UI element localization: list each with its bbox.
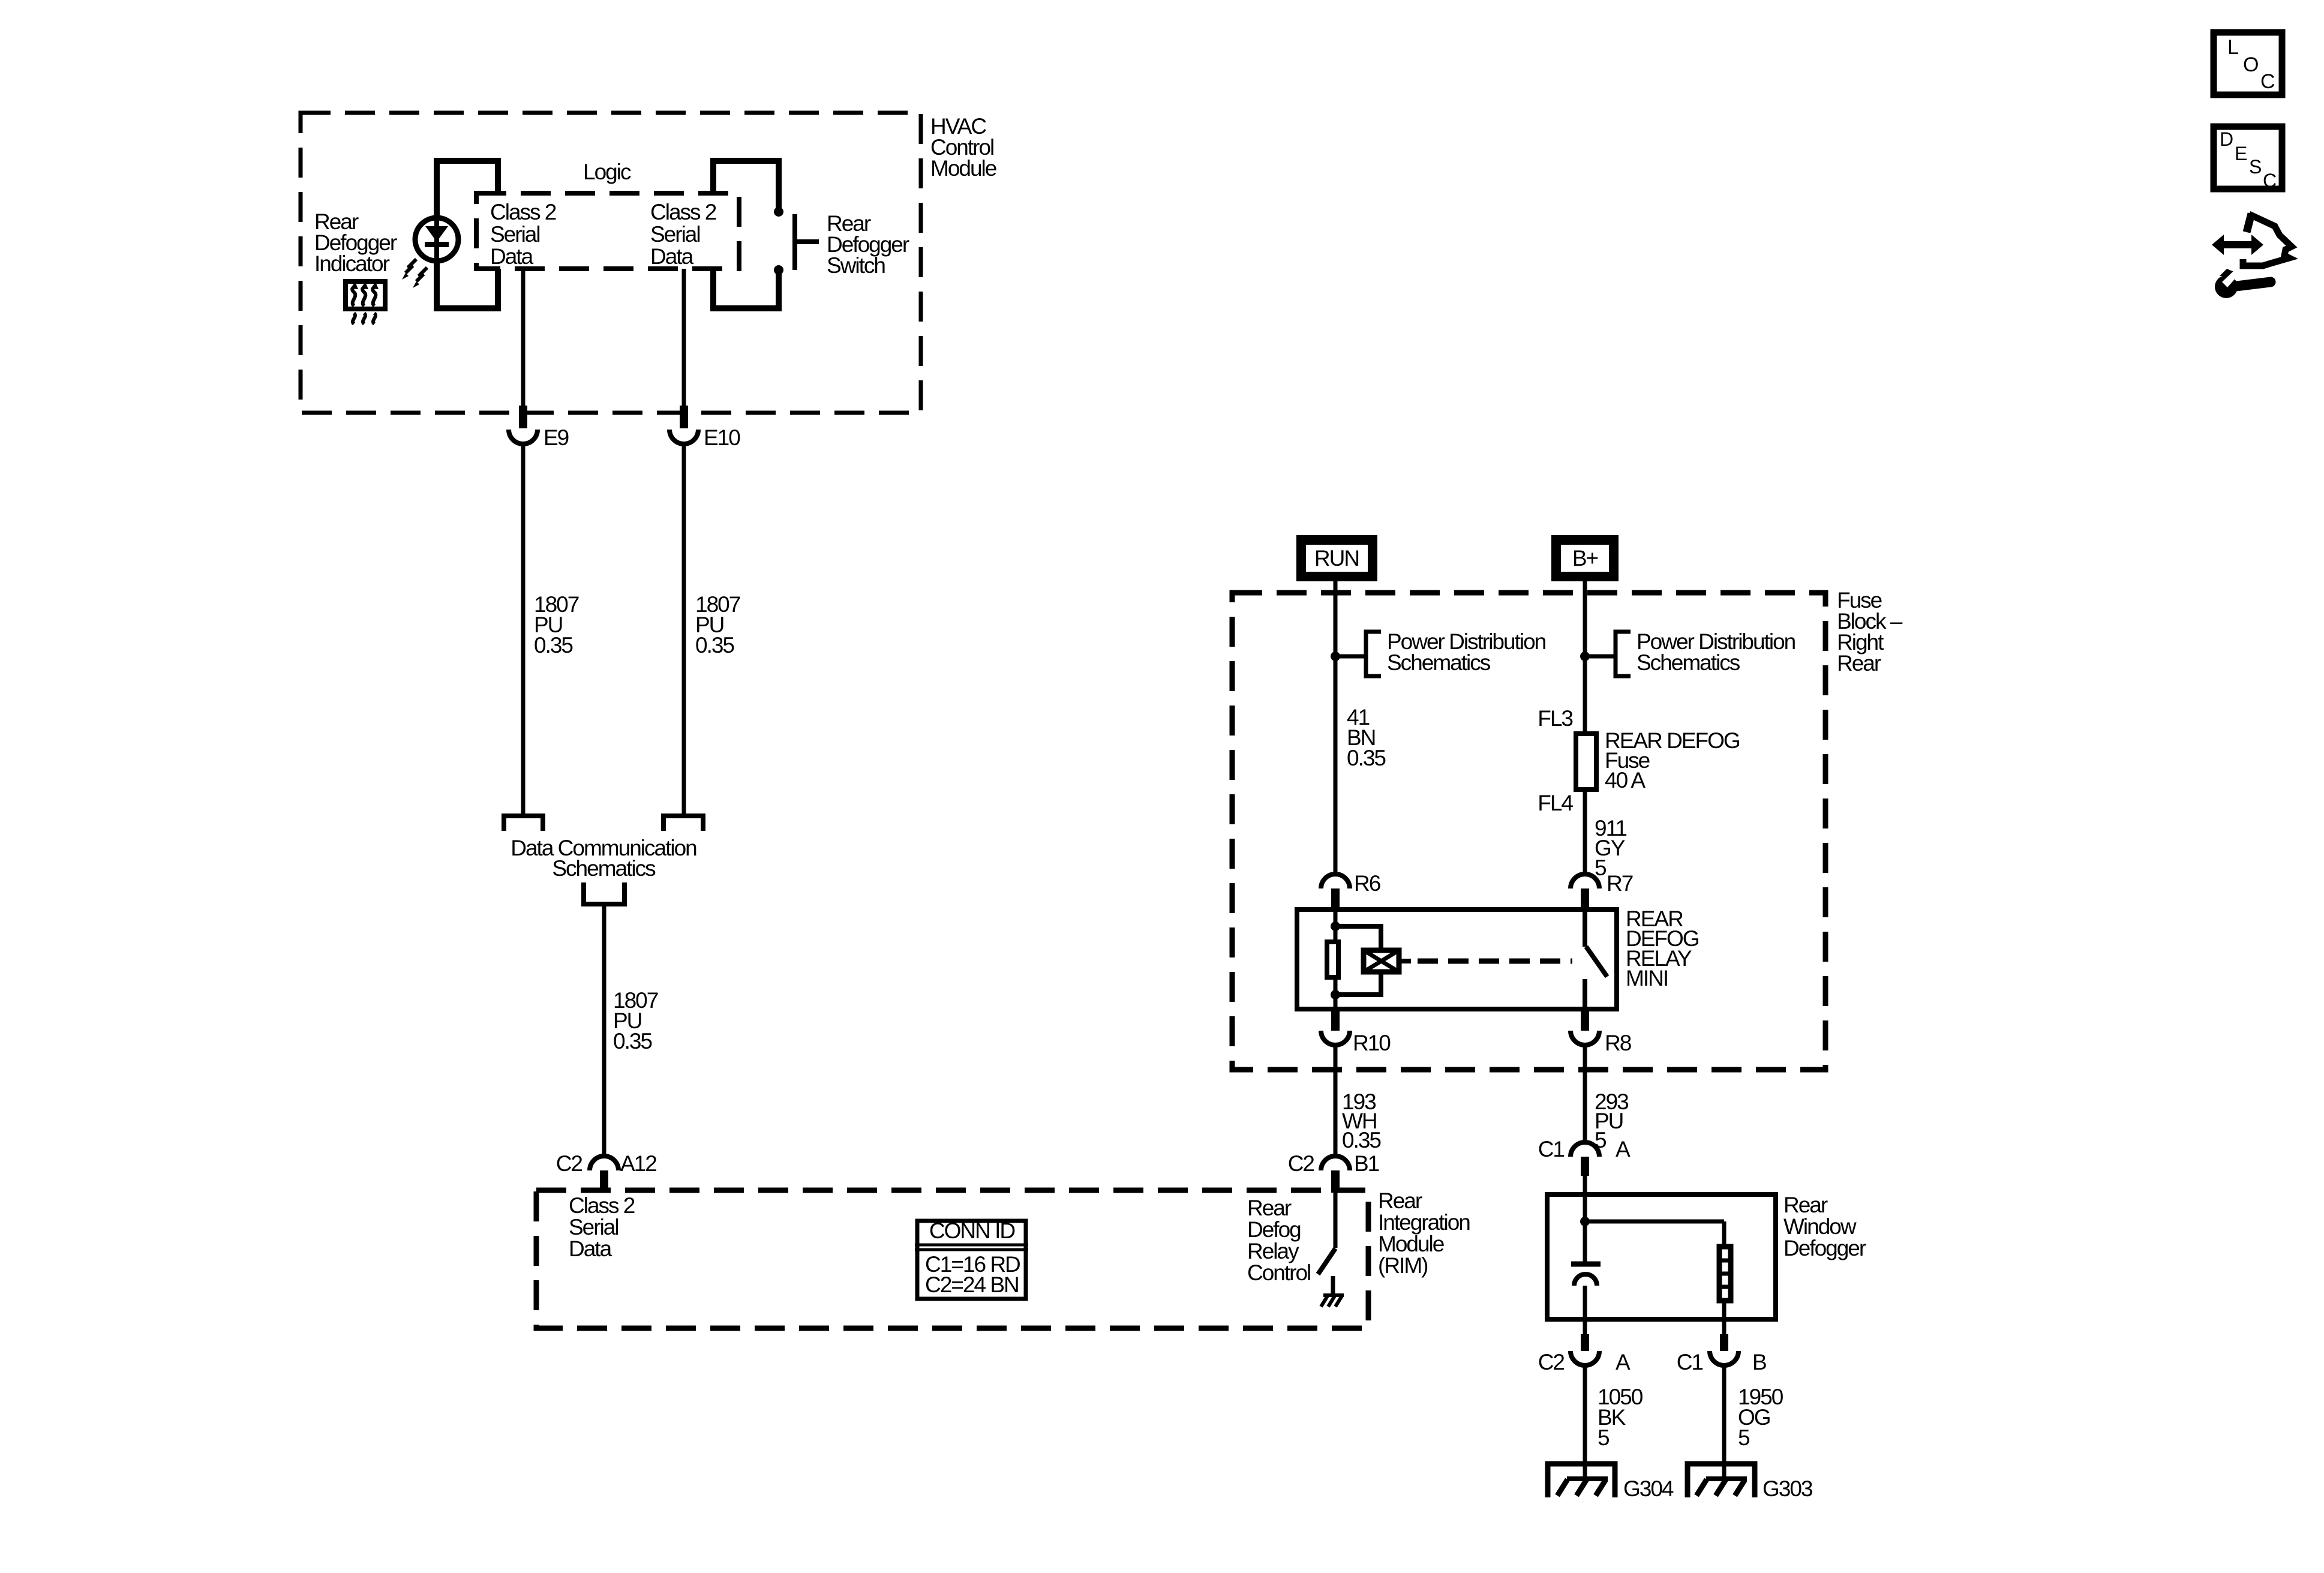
svg-text:Indicator: Indicator	[314, 251, 390, 276]
svg-text:Data: Data	[569, 1236, 612, 1261]
svg-text:FL4: FL4	[1538, 791, 1573, 815]
svg-text:0.35: 0.35	[695, 633, 734, 658]
svg-text:A: A	[1616, 1350, 1631, 1374]
svg-text:L: L	[2227, 36, 2238, 59]
svg-text:Rear: Rear	[1247, 1196, 1292, 1220]
svg-text:0.35: 0.35	[613, 1029, 652, 1053]
svg-text:Schematics: Schematics	[1387, 650, 1491, 675]
svg-text:S: S	[2249, 156, 2261, 178]
svg-text:R7: R7	[1607, 871, 1633, 896]
svg-text:0.35: 0.35	[1342, 1128, 1381, 1152]
svg-text:Control: Control	[1247, 1260, 1310, 1285]
svg-text:C: C	[2263, 170, 2276, 191]
svg-text:C: C	[2260, 70, 2275, 93]
svg-text:5: 5	[1738, 1425, 1750, 1450]
svg-text:5: 5	[1598, 1425, 1610, 1450]
svg-text:FL3: FL3	[1538, 706, 1572, 731]
svg-text:C1: C1	[1677, 1350, 1703, 1374]
svg-text:CONN ID: CONN ID	[929, 1218, 1015, 1243]
svg-text:Integration: Integration	[1378, 1210, 1470, 1235]
svg-text:RUN: RUN	[1314, 546, 1359, 571]
svg-text:Schematics: Schematics	[552, 856, 656, 881]
svg-text:R6: R6	[1354, 871, 1380, 896]
svg-text:Rear: Rear	[1378, 1188, 1422, 1213]
svg-text:MINI: MINI	[1626, 966, 1668, 990]
svg-text:A: A	[1616, 1137, 1631, 1161]
svg-text:40 A: 40 A	[1605, 768, 1646, 792]
svg-text:Defog: Defog	[1247, 1217, 1301, 1242]
svg-text:R8: R8	[1605, 1031, 1631, 1055]
svg-text:B: B	[1752, 1350, 1766, 1374]
svg-text:Data: Data	[650, 244, 694, 269]
svg-text:B+: B+	[1572, 546, 1598, 571]
svg-text:B1: B1	[1354, 1151, 1379, 1176]
svg-text:Class 2: Class 2	[650, 200, 716, 224]
svg-text:R10: R10	[1353, 1031, 1391, 1055]
svg-text:O: O	[2243, 53, 2258, 76]
svg-text:D: D	[2220, 128, 2233, 150]
svg-text:Module: Module	[930, 156, 996, 181]
svg-text:Module: Module	[1378, 1232, 1444, 1256]
svg-text:Rear: Rear	[1837, 651, 1881, 676]
svg-text:Rear: Rear	[1783, 1193, 1828, 1217]
svg-text:E10: E10	[704, 425, 740, 450]
svg-text:Switch: Switch	[827, 253, 885, 278]
svg-text:Class 2: Class 2	[490, 200, 556, 224]
svg-text:G303: G303	[1762, 1476, 1812, 1501]
svg-text:C2: C2	[1288, 1151, 1314, 1176]
svg-text:A12: A12	[620, 1151, 656, 1176]
svg-text:C2: C2	[1538, 1350, 1565, 1374]
svg-text:G304: G304	[1623, 1476, 1674, 1501]
svg-text:Serial: Serial	[490, 222, 540, 247]
svg-text:C2=24 BN: C2=24 BN	[925, 1272, 1019, 1297]
svg-text:0.35: 0.35	[534, 633, 573, 658]
svg-text:C1: C1	[1538, 1137, 1565, 1161]
svg-text:Logic: Logic	[583, 160, 631, 184]
svg-text:E9: E9	[544, 425, 569, 450]
svg-text:Class 2: Class 2	[569, 1193, 635, 1218]
svg-text:Data: Data	[490, 244, 534, 269]
svg-text:Relay: Relay	[1247, 1239, 1299, 1263]
svg-text:E: E	[2235, 143, 2247, 164]
svg-text:Defogger: Defogger	[1783, 1236, 1866, 1260]
svg-text:C2: C2	[556, 1151, 582, 1176]
svg-text:Serial: Serial	[650, 222, 700, 247]
svg-text:0.35: 0.35	[1347, 746, 1386, 770]
svg-text:Schematics: Schematics	[1637, 650, 1740, 675]
svg-text:Window: Window	[1783, 1214, 1857, 1239]
svg-text:(RIM): (RIM)	[1378, 1253, 1428, 1278]
svg-text:Serial: Serial	[569, 1215, 618, 1239]
